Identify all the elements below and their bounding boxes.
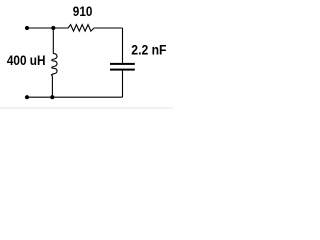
node dot: top junction xyxy=(51,26,55,30)
wire top: left terminal to resistor xyxy=(27,27,68,29)
wire right vertical upper xyxy=(122,28,124,63)
faint divider line xyxy=(0,107,173,109)
node dot: bottom-left terminal xyxy=(25,95,29,99)
wire right vertical lower xyxy=(122,71,124,98)
resistor R zigzag xyxy=(68,25,94,32)
node dot: top-left terminal xyxy=(25,26,29,30)
svg-text:2.2 nF: 2.2 nF xyxy=(131,42,166,57)
wire left branch upper xyxy=(52,28,54,54)
capacitor C top plate xyxy=(110,63,135,65)
node dot: bottom junction xyxy=(50,95,54,99)
wire bottom xyxy=(27,96,123,98)
svg-text:400 uH: 400 uH xyxy=(7,53,46,68)
capacitor C bottom plate xyxy=(110,69,135,71)
inductor L coil xyxy=(51,54,57,76)
wire top: resistor to top-right corner xyxy=(94,27,123,29)
svg-text:910: 910 xyxy=(73,4,93,19)
wire left branch lower xyxy=(51,76,53,98)
